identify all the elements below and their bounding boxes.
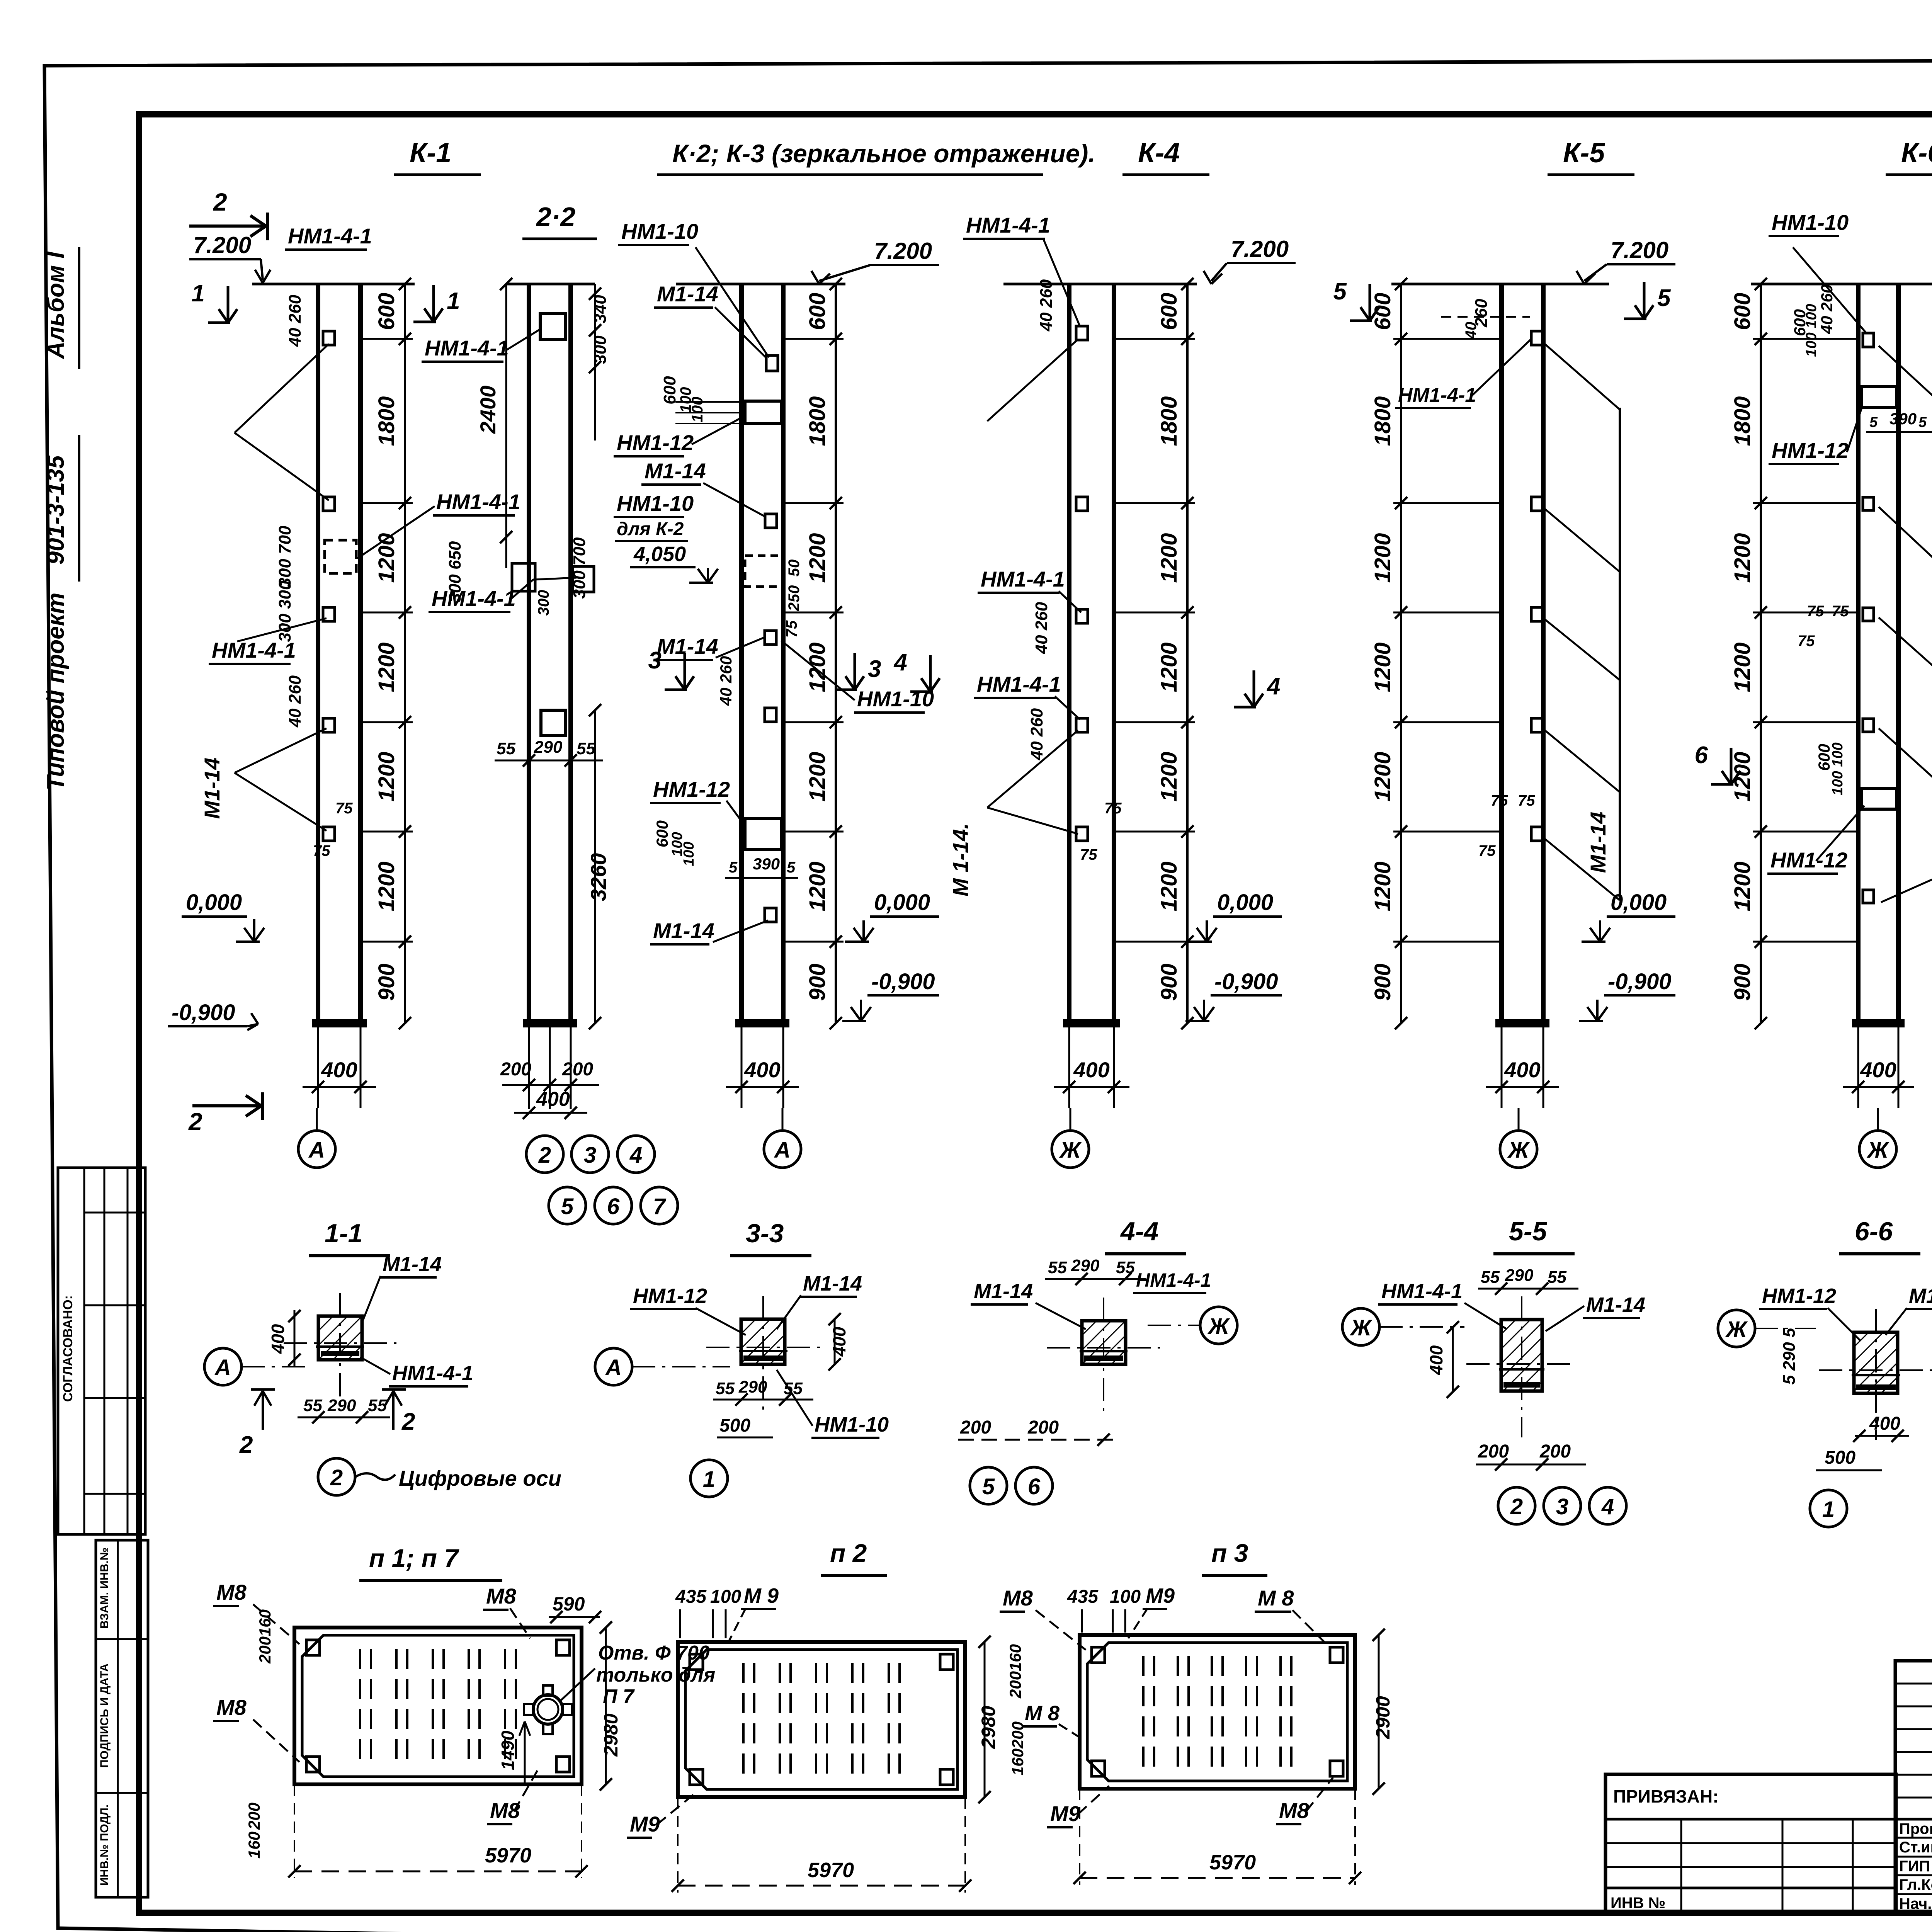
- svg-text:2: 2: [401, 1408, 415, 1435]
- column K-5: embedded plates: [1531, 331, 1543, 345]
- svg-text:400: 400: [1860, 1058, 1896, 1082]
- svg-text:Нач.отд: Нач.отд: [1899, 1895, 1932, 1912]
- svg-text:М 8: М 8: [1258, 1586, 1294, 1610]
- svg-text:НМ1-10: НМ1-10: [815, 1413, 889, 1436]
- svg-text:НМ1-12: НМ1-12: [1762, 1284, 1836, 1308]
- svg-text:1200: 1200: [805, 861, 830, 911]
- section 2-2: bottom dims and bubbles: [528, 1023, 530, 1109]
- svg-text:2900: 2900: [1372, 1696, 1394, 1739]
- svg-text:П 7: П 7: [603, 1685, 635, 1708]
- svg-text:К-6: К-6: [1901, 138, 1932, 168]
- svg-text:100 100: 100 100: [1830, 742, 1846, 795]
- svg-text:290: 290: [1071, 1256, 1100, 1275]
- plate П2: corner anchors: [690, 1654, 703, 1670]
- svg-text:200: 200: [1009, 1721, 1027, 1749]
- svg-text:2: 2: [239, 1432, 253, 1458]
- svg-text:НМ1-4-1: НМ1-4-1: [288, 224, 372, 248]
- svg-text:НМ1-4-1: НМ1-4-1: [981, 567, 1065, 591]
- svg-text:200: 200: [245, 1803, 263, 1830]
- svg-text:40 260: 40 260: [1818, 284, 1836, 334]
- svg-text:НМ1-10: НМ1-10: [621, 219, 698, 243]
- column K-1: embedded plates: [323, 331, 335, 345]
- svg-text:100: 100: [1110, 1587, 1141, 1607]
- svg-text:75: 75: [1518, 792, 1535, 809]
- svg-text:400: 400: [829, 1327, 849, 1357]
- svg-text:75: 75: [1491, 792, 1508, 809]
- svg-text:4,050: 4,050: [633, 543, 686, 566]
- svg-text:3: 3: [584, 1143, 596, 1168]
- svg-text:3: 3: [868, 656, 881, 682]
- svg-text:55: 55: [577, 739, 595, 758]
- column K-6: dimension line: [1760, 284, 1762, 1023]
- svg-text:1800: 1800: [805, 396, 830, 446]
- svg-text:1200: 1200: [1730, 752, 1755, 801]
- column K-1: section cut marks 1-1: [227, 286, 230, 323]
- svg-text:4: 4: [1266, 673, 1280, 700]
- left margin: approval box (СОГЛАСОВАНО): [58, 1168, 145, 1534]
- svg-text:М1-14: М1-14: [1909, 1284, 1932, 1308]
- plate П3: rib dashed lines: [1142, 1656, 1145, 1767]
- svg-text:435: 435: [1067, 1587, 1099, 1607]
- svg-text:НМ1-12: НМ1-12: [617, 430, 694, 455]
- svg-text:1-1: 1-1: [325, 1219, 362, 1248]
- svg-text:5970: 5970: [1209, 1851, 1256, 1874]
- svg-text:2980: 2980: [978, 1706, 999, 1749]
- svg-text:Ж: Ж: [1349, 1315, 1372, 1340]
- svg-text:А: А: [774, 1138, 791, 1163]
- column K-6: cut marks 6: [1730, 748, 1733, 784]
- svg-text:600: 600: [1370, 293, 1395, 330]
- svg-text:М 8: М 8: [1025, 1702, 1060, 1725]
- svg-text:Гл.Конст: Гл.Конст: [1899, 1876, 1932, 1893]
- section 2-2: body: [527, 284, 531, 1023]
- svg-text:75: 75: [1478, 842, 1496, 859]
- svg-text:300 650: 300 650: [446, 541, 464, 603]
- svg-text:2: 2: [538, 1143, 551, 1168]
- svg-text:2: 2: [1510, 1494, 1523, 1519]
- column K-6: embedded plates: [1863, 333, 1874, 347]
- svg-text:для К-2: для К-2: [617, 519, 684, 539]
- svg-text:1800: 1800: [1730, 396, 1755, 446]
- column K-5: dimension line: [1400, 284, 1402, 1023]
- svg-text:Типовой проект: Типовой проект: [43, 593, 69, 791]
- svg-text:2: 2: [213, 188, 227, 216]
- svg-text:М8: М8: [216, 1580, 247, 1604]
- column K-6: body: [1856, 284, 1861, 1023]
- svg-text:400: 400: [1504, 1058, 1540, 1082]
- svg-text:НМ1-4-1: НМ1-4-1: [1381, 1280, 1463, 1303]
- svg-text:0,000: 0,000: [1217, 890, 1273, 915]
- svg-text:М8: М8: [490, 1798, 520, 1823]
- svg-text:2·2: 2·2: [536, 202, 575, 232]
- svg-text:300: 300: [535, 590, 552, 616]
- svg-text:Ж: Ж: [1725, 1317, 1748, 1342]
- svg-text:340: 340: [591, 295, 610, 323]
- svg-text:НМ1-12: НМ1-12: [1770, 848, 1847, 872]
- svg-text:5: 5: [729, 859, 738, 876]
- svg-text:Ж: Ж: [1507, 1138, 1530, 1163]
- section 2-2: 3260 label: [594, 710, 596, 1023]
- svg-text:400: 400: [1426, 1345, 1446, 1375]
- column K-2/K-3: body: [739, 284, 744, 1023]
- svg-text:ПОДПИСЬ И ДАТА: ПОДПИСЬ И ДАТА: [98, 1663, 111, 1768]
- svg-text:НМ1-4-1: НМ1-4-1: [977, 672, 1061, 696]
- section 2-2: embedded plates: [540, 314, 566, 339]
- svg-text:250: 250: [786, 585, 803, 612]
- svg-text:200: 200: [1539, 1441, 1571, 1462]
- svg-text:М1-14: М1-14: [653, 918, 714, 943]
- svg-text:600: 600: [374, 293, 399, 330]
- svg-text:М1-14: М1-14: [383, 1253, 442, 1276]
- svg-text:40 260: 40 260: [1027, 708, 1046, 760]
- plate П1/П7: outline: [294, 1628, 582, 1784]
- svg-text:75: 75: [1832, 603, 1849, 620]
- svg-text:75: 75: [313, 842, 330, 859]
- svg-text:Ж: Ж: [1059, 1138, 1082, 1163]
- svg-text:100: 100: [710, 1587, 741, 1607]
- svg-text:2: 2: [188, 1108, 202, 1136]
- svg-text:100: 100: [681, 842, 697, 866]
- svg-text:4-4: 4-4: [1120, 1217, 1158, 1246]
- svg-text:0,000: 0,000: [1611, 890, 1667, 915]
- svg-text:55: 55: [497, 739, 515, 758]
- svg-text:М8: М8: [1279, 1798, 1310, 1823]
- svg-text:5-5: 5-5: [1509, 1217, 1547, 1246]
- column K-1: anchor leader lines: [235, 344, 329, 433]
- svg-text:СОГЛАСОВАНО:: СОГЛАСОВАНО:: [61, 1295, 75, 1402]
- svg-text:1800: 1800: [1370, 396, 1395, 446]
- svg-text:0,000: 0,000: [186, 890, 242, 915]
- svg-text:40 260: 40 260: [1032, 602, 1051, 654]
- svg-text:900: 900: [1730, 964, 1755, 1001]
- plate П2: outline: [678, 1642, 965, 1797]
- svg-text:М8: М8: [486, 1584, 517, 1608]
- svg-text:М1-14: М1-14: [1586, 1293, 1645, 1316]
- column K-4: bottom 400 dim and axis bubble: [1068, 1023, 1070, 1108]
- svg-text:400: 400: [321, 1058, 357, 1082]
- svg-text:400: 400: [268, 1324, 288, 1354]
- column K-2/K-3: dimension line: [835, 284, 837, 1023]
- svg-text:160: 160: [1006, 1644, 1024, 1671]
- column K-2: section cut marks 3: [684, 653, 686, 690]
- svg-text:ПРИВЯЗАН:: ПРИВЯЗАН:: [1613, 1786, 1719, 1806]
- svg-text:160: 160: [245, 1832, 263, 1859]
- svg-text:1800: 1800: [374, 396, 399, 446]
- svg-text:900: 900: [1156, 964, 1182, 1001]
- section 6-6: [1854, 1332, 1898, 1393]
- column K-2/K-3: bottom 400 dim and axis bubble: [741, 1023, 743, 1108]
- svg-text:75: 75: [783, 620, 800, 638]
- svg-text:НМ1-10: НМ1-10: [1772, 210, 1849, 235]
- svg-text:1200: 1200: [374, 752, 399, 801]
- svg-text:55: 55: [1116, 1258, 1135, 1277]
- section 4-4: [1082, 1321, 1126, 1364]
- svg-text:600: 600: [660, 376, 679, 405]
- svg-text:900: 900: [374, 964, 399, 1001]
- svg-text:300 700: 300 700: [570, 537, 589, 599]
- svg-text:1200: 1200: [1730, 861, 1755, 911]
- svg-text:901-3-135: 901-3-135: [43, 455, 69, 565]
- column K-5: body: [1499, 284, 1504, 1023]
- section 1-1 up-arrows 2: [262, 1391, 264, 1430]
- svg-text:75: 75: [1080, 846, 1097, 863]
- svg-text:М1-14: М1-14: [657, 634, 718, 658]
- svg-text:НМ1-4-1: НМ1-4-1: [392, 1362, 473, 1385]
- svg-text:75: 75: [1807, 603, 1824, 620]
- svg-text:6: 6: [1695, 742, 1708, 769]
- svg-text:1200: 1200: [1370, 752, 1395, 801]
- title block: signature table: [1895, 1661, 1932, 1913]
- svg-text:1200: 1200: [374, 861, 399, 911]
- svg-text:п 2: п 2: [830, 1539, 867, 1567]
- svg-text:200: 200: [500, 1059, 531, 1080]
- svg-text:НМ1-4-1: НМ1-4-1: [432, 586, 516, 611]
- svg-text:М9: М9: [1146, 1584, 1175, 1607]
- svg-text:Ст.инж: Ст.инж: [1899, 1839, 1932, 1856]
- svg-text:200: 200: [1027, 1417, 1059, 1438]
- svg-text:1200: 1200: [1156, 861, 1182, 911]
- svg-text:ГИП: ГИП: [1899, 1858, 1930, 1875]
- svg-text:2400: 2400: [476, 386, 500, 434]
- svg-text:К·2; К-3 (зеркальное отражение: К·2; К-3 (зеркальное отражение).: [672, 139, 1095, 168]
- svg-text:НМ1-4-1: НМ1-4-1: [436, 490, 520, 514]
- plate П3: outline: [1080, 1635, 1355, 1789]
- svg-text:590: 590: [553, 1593, 585, 1615]
- svg-text:НМ1-12: НМ1-12: [653, 777, 730, 801]
- svg-text:НМ1-4-1: НМ1-4-1: [966, 213, 1050, 237]
- svg-text:1200: 1200: [805, 752, 830, 801]
- section 1-1: [318, 1316, 362, 1360]
- svg-text:только для: только для: [596, 1664, 715, 1686]
- svg-text:-0,900: -0,900: [172, 1000, 235, 1025]
- svg-text:5970: 5970: [808, 1859, 854, 1882]
- svg-text:5: 5: [1333, 278, 1347, 305]
- svg-text:А: А: [214, 1355, 231, 1380]
- svg-text:1200: 1200: [374, 642, 399, 692]
- column K-5: bottom 400 dim and axis bubble: [1501, 1023, 1503, 1108]
- svg-text:НМ1-12: НМ1-12: [633, 1284, 707, 1308]
- svg-text:М1-14: М1-14: [974, 1280, 1033, 1303]
- svg-text:А: А: [605, 1355, 622, 1380]
- svg-text:200: 200: [1006, 1671, 1024, 1699]
- svg-text:40 260: 40 260: [286, 675, 304, 728]
- svg-text:1: 1: [1822, 1497, 1835, 1522]
- svg-text:40 260: 40 260: [717, 656, 735, 706]
- svg-text:Пров: Пров: [1899, 1820, 1932, 1837]
- svg-text:1800: 1800: [1156, 396, 1182, 446]
- column K-6: leader fan to М1-14: [1879, 346, 1932, 439]
- svg-text:200: 200: [562, 1059, 593, 1080]
- svg-text:100: 100: [689, 397, 706, 423]
- column K-4: cut marks 4: [929, 655, 932, 692]
- section 3-3: [741, 1319, 785, 1364]
- svg-text:290: 290: [327, 1396, 356, 1415]
- svg-text:1: 1: [703, 1467, 715, 1492]
- svg-text:1200: 1200: [1730, 642, 1755, 692]
- svg-text:55: 55: [1048, 1258, 1067, 1277]
- svg-text:п 3: п 3: [1211, 1539, 1248, 1567]
- svg-text:300 300: 300 300: [276, 580, 294, 642]
- svg-text:400: 400: [536, 1088, 570, 1111]
- column K-4: embedded plates: [1076, 326, 1088, 340]
- svg-text:М1-14: М1-14: [645, 459, 706, 483]
- svg-text:-0,900: -0,900: [1608, 969, 1671, 994]
- svg-text:55: 55: [303, 1396, 322, 1415]
- column K-2: embedded plates: [766, 355, 778, 371]
- svg-text:5: 5: [1918, 414, 1927, 430]
- svg-text:75: 75: [1104, 800, 1122, 817]
- svg-text:3-3: 3-3: [746, 1219, 784, 1248]
- svg-text:М8: М8: [216, 1695, 247, 1719]
- svg-text:7.200: 7.200: [1611, 237, 1668, 263]
- svg-text:200: 200: [256, 1636, 274, 1664]
- plate П1/П7: rib dashed lines: [359, 1649, 361, 1763]
- svg-text:1200: 1200: [1156, 752, 1182, 801]
- column K-5: cut marks 5: [1369, 284, 1371, 321]
- svg-text:3260: 3260: [586, 853, 611, 901]
- svg-text:3: 3: [648, 647, 662, 674]
- svg-text:390: 390: [1889, 410, 1917, 428]
- column K-4: dimension line: [1186, 284, 1189, 1023]
- plate П1/П7: corner anchors: [306, 1640, 320, 1655]
- plate П2: rib dashed lines: [742, 1663, 745, 1776]
- svg-text:Ж: Ж: [1866, 1138, 1889, 1163]
- svg-text:5: 5: [1657, 285, 1671, 311]
- svg-text:М1-14: М1-14: [200, 758, 224, 819]
- column K-5: leader fan to М1-14: [1543, 342, 1620, 410]
- svg-text:500: 500: [719, 1415, 750, 1436]
- svg-text:40: 40: [1463, 322, 1480, 340]
- svg-text:НМ1-12: НМ1-12: [1772, 438, 1849, 463]
- svg-text:55: 55: [1481, 1268, 1500, 1287]
- svg-text:М 9: М 9: [744, 1584, 779, 1607]
- section 5-5: [1501, 1320, 1542, 1391]
- svg-text:290: 290: [738, 1378, 767, 1396]
- svg-text:2: 2: [330, 1465, 343, 1490]
- svg-text:4: 4: [1601, 1494, 1614, 1519]
- svg-text:-0,900: -0,900: [1214, 969, 1278, 994]
- column K-4: body: [1067, 284, 1071, 1023]
- svg-text:0,000: 0,000: [874, 890, 930, 915]
- column K-1: bottom 400 dim and axis bubble: [317, 1023, 319, 1108]
- svg-text:4: 4: [893, 649, 907, 676]
- svg-text:1200: 1200: [1156, 642, 1182, 692]
- svg-text:1200: 1200: [1730, 533, 1755, 583]
- svg-text:5970: 5970: [485, 1844, 531, 1867]
- svg-text:400: 400: [744, 1058, 780, 1082]
- svg-text:М 1-14.: М 1-14.: [948, 823, 973, 896]
- svg-text:М1-14: М1-14: [657, 282, 718, 306]
- plate П3: corner anchors: [1092, 1647, 1105, 1663]
- svg-text:300 700: 300 700: [276, 526, 294, 587]
- svg-text:4: 4: [629, 1143, 642, 1168]
- svg-text:НМ1-10: НМ1-10: [617, 491, 694, 515]
- svg-text:1200: 1200: [1370, 533, 1395, 583]
- svg-text:1: 1: [192, 280, 205, 307]
- svg-text:М1-14: М1-14: [1586, 812, 1610, 873]
- svg-text:ВЗАМ. ИНВ.№: ВЗАМ. ИНВ.№: [98, 1548, 111, 1629]
- svg-text:п 1; п 7: п 1; п 7: [369, 1544, 459, 1572]
- svg-text:290: 290: [1505, 1266, 1534, 1285]
- svg-text:Цифровые оси: Цифровые оси: [399, 1466, 561, 1490]
- svg-text:300: 300: [591, 335, 610, 364]
- svg-text:1200: 1200: [805, 533, 830, 583]
- svg-text:5: 5: [787, 859, 796, 876]
- svg-text:3: 3: [1556, 1494, 1568, 1519]
- svg-text:1: 1: [447, 288, 460, 315]
- column K-1: dimension line: [404, 284, 406, 1023]
- svg-text:900: 900: [1370, 964, 1395, 1001]
- column K-1: body: [316, 284, 320, 1023]
- title block: attachment table (ПРИВЯЗАН): [1605, 1774, 1896, 1913]
- svg-text:5: 5: [982, 1474, 995, 1499]
- svg-text:290: 290: [534, 738, 563, 757]
- svg-text:7.200: 7.200: [193, 232, 251, 258]
- svg-text:НМ1-4-1: НМ1-4-1: [1136, 1269, 1211, 1291]
- svg-text:1200: 1200: [1156, 533, 1182, 583]
- svg-text:55: 55: [716, 1379, 735, 1398]
- svg-text:160: 160: [1009, 1748, 1027, 1776]
- svg-text:7.200: 7.200: [1231, 236, 1289, 262]
- svg-text:40 260: 40 260: [286, 294, 304, 347]
- svg-text:К-5: К-5: [1563, 138, 1605, 168]
- svg-text:55: 55: [368, 1396, 387, 1415]
- svg-text:600: 600: [1156, 293, 1182, 330]
- svg-text:55: 55: [1548, 1268, 1566, 1287]
- svg-text:1200: 1200: [1370, 861, 1395, 911]
- svg-text:-0,900: -0,900: [871, 969, 935, 994]
- svg-text:75: 75: [335, 800, 353, 817]
- svg-text:Ж: Ж: [1207, 1314, 1230, 1339]
- svg-text:6: 6: [1028, 1474, 1041, 1499]
- svg-text:160: 160: [256, 1609, 274, 1636]
- svg-text:7.200: 7.200: [874, 238, 932, 264]
- svg-text:Альбом I: Альбом I: [43, 251, 69, 360]
- digital axes note: [318, 1458, 355, 1495]
- svg-text:ИНВ №: ИНВ №: [1611, 1895, 1665, 1912]
- svg-text:200: 200: [960, 1417, 991, 1438]
- svg-text:М9: М9: [630, 1812, 660, 1836]
- svg-text:75: 75: [1798, 633, 1815, 650]
- column K-6: bottom 400 dim and axis bubble: [1857, 1023, 1859, 1108]
- svg-text:5: 5: [561, 1194, 574, 1219]
- svg-text:М8: М8: [1003, 1586, 1033, 1610]
- left margin: inventory boxes: [96, 1540, 148, 1897]
- svg-text:7: 7: [653, 1194, 667, 1219]
- section 2-2: left dims 2400 / 300 650: [505, 284, 507, 568]
- svg-text:435: 435: [675, 1587, 707, 1607]
- svg-text:1200: 1200: [1370, 642, 1395, 692]
- svg-text:600: 600: [1791, 309, 1809, 336]
- svg-text:НМ1-10: НМ1-10: [857, 687, 934, 711]
- svg-text:500: 500: [1825, 1447, 1855, 1468]
- svg-text:К-1: К-1: [410, 138, 451, 168]
- svg-text:600: 600: [653, 820, 671, 847]
- section 2-2: right dims 340 300: [594, 284, 596, 440]
- svg-text:400: 400: [1073, 1058, 1109, 1082]
- svg-text:400: 400: [1869, 1413, 1900, 1434]
- svg-text:ИНВ.№ ПОДЛ.: ИНВ.№ ПОДЛ.: [98, 1804, 111, 1886]
- svg-text:40 260: 40 260: [1037, 279, 1056, 332]
- svg-text:6: 6: [607, 1194, 620, 1219]
- svg-text:1200: 1200: [805, 642, 830, 692]
- svg-text:НМ1-4-1: НМ1-4-1: [1398, 384, 1476, 406]
- svg-text:5: 5: [1869, 414, 1878, 430]
- svg-text:М1-14: М1-14: [803, 1272, 862, 1295]
- svg-text:200: 200: [1478, 1441, 1509, 1462]
- svg-text:К-4: К-4: [1138, 138, 1180, 168]
- svg-text:5 290 5: 5 290 5: [1780, 1328, 1799, 1384]
